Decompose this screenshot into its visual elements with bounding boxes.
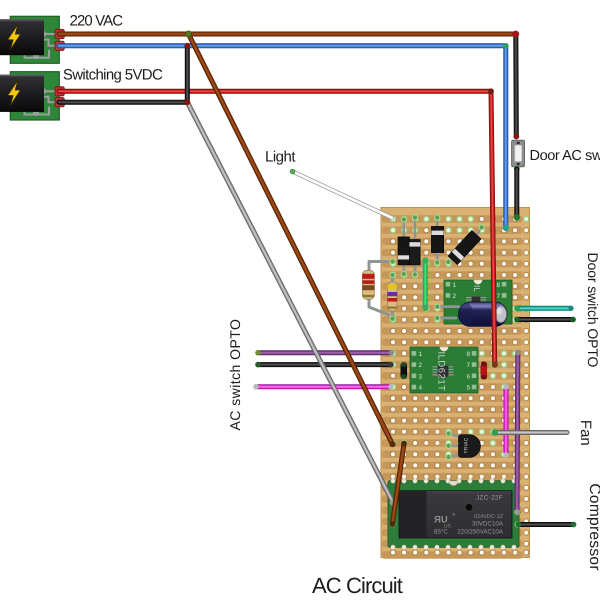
svg-text:6: 6 bbox=[466, 373, 470, 380]
label Door switch OPTO bbox=[585, 253, 600, 368]
opto-coupler U1 (door switch) bbox=[444, 280, 512, 324]
label Switching 5VDC bbox=[63, 67, 163, 84]
wire red 5V supply bbox=[59, 88, 498, 367]
relay module JZC-22F bbox=[388, 479, 521, 550]
wire brown jumper to relay bbox=[389, 441, 407, 527]
wire black to door AC switch bbox=[512, 31, 519, 140]
label AC switch OPTO bbox=[227, 319, 243, 431]
svg-text:ILD621T: ILD621T bbox=[436, 352, 447, 392]
svg-text:Switching 5VDC: Switching 5VDC bbox=[63, 67, 163, 84]
svg-text:8: 8 bbox=[496, 282, 500, 289]
wire magenta vertical (fan drive) bbox=[503, 384, 509, 458]
wire black compressor bbox=[516, 522, 577, 528]
svg-text:8: 8 bbox=[466, 351, 470, 358]
svg-text:Door AC switch: Door AC switch bbox=[530, 148, 600, 164]
wire brown AC live bbox=[59, 32, 516, 37]
svg-text:Door switch OPTO: Door switch OPTO bbox=[585, 253, 600, 368]
wire black AC-switch-OPTO in bbox=[255, 362, 394, 368]
svg-text:AC switch OPTO: AC switch OPTO bbox=[227, 319, 243, 431]
svg-text:Fan: Fan bbox=[577, 420, 594, 446]
diode D4 (diagonal) bbox=[445, 224, 484, 265]
TRIAC Q1 bbox=[446, 431, 481, 461]
wire magenta AC-switch-OPTO in bbox=[253, 384, 394, 390]
electrolytic capacitor C1 bbox=[434, 302, 507, 326]
wire brown diagonal AC live to board bbox=[189, 34, 396, 447]
svg-text:220/250VAC10A: 220/250VAC10A bbox=[457, 528, 504, 535]
wire gray to relay coil bbox=[184, 99, 396, 505]
svg-text:Light: Light bbox=[265, 149, 296, 166]
svg-text:4: 4 bbox=[419, 385, 423, 392]
label Fan bbox=[577, 420, 594, 446]
svg-text:85°C: 85°C bbox=[434, 528, 448, 535]
svg-text:2: 2 bbox=[419, 362, 423, 369]
wire purple AC-switch-OPTO in bbox=[255, 350, 394, 356]
label Light bbox=[265, 149, 296, 166]
diode D3 bbox=[431, 215, 443, 266]
svg-text:024VDC-1Z: 024VDC-1Z bbox=[474, 514, 504, 520]
svg-text:7: 7 bbox=[496, 293, 500, 300]
small red component R3 bbox=[481, 362, 487, 380]
label Compressor bbox=[586, 483, 600, 570]
svg-text:7: 7 bbox=[466, 362, 470, 369]
wire black door switch to board bbox=[514, 166, 520, 221]
svg-text:30VDC10A: 30VDC10A bbox=[472, 520, 504, 527]
diode D2 bbox=[409, 215, 420, 278]
svg-text:5: 5 bbox=[466, 385, 470, 392]
svg-text:1: 1 bbox=[419, 351, 423, 358]
svg-text:IL: IL bbox=[472, 285, 482, 292]
power supply module 5VDC bbox=[0, 72, 64, 120]
opto-coupler U2 ILD621T (AC switch) bbox=[410, 347, 478, 393]
svg-text:JZC-22F: JZC-22F bbox=[476, 495, 503, 502]
power supply module 220VAC bbox=[0, 16, 64, 63]
wire teal jumper on board bbox=[422, 257, 428, 311]
leader line for Light label bbox=[290, 169, 392, 218]
wire blue AC neutral bbox=[59, 43, 509, 231]
wire black door-switch-OPTO out bbox=[514, 317, 576, 323]
junction node AC live bbox=[185, 31, 191, 37]
svg-text:220 VAC: 220 VAC bbox=[70, 13, 124, 30]
wire gray fan output bbox=[491, 429, 567, 436]
perfboard bbox=[381, 208, 530, 559]
svg-text:1: 1 bbox=[453, 282, 457, 289]
svg-text:2: 2 bbox=[453, 293, 457, 300]
svg-text:TRIAC: TRIAC bbox=[464, 437, 470, 453]
label 220 VAC bbox=[70, 13, 124, 30]
svg-text:3: 3 bbox=[419, 373, 423, 380]
wire purple vertical (compressor drive) bbox=[514, 350, 521, 515]
wire black 5V ground bbox=[59, 43, 190, 102]
door AC switch component bbox=[512, 140, 525, 167]
resistor R2 (on board) bbox=[388, 272, 398, 322]
wire teal door-switch-OPTO out bbox=[514, 305, 574, 311]
title AC Circuit bbox=[312, 573, 403, 598]
resistor R1 (off-board) bbox=[362, 259, 396, 320]
svg-text:Compressor: Compressor bbox=[586, 483, 600, 570]
small black capacitor C2 bbox=[401, 363, 407, 379]
diode D1 bbox=[398, 217, 410, 278]
label Door AC switch bbox=[530, 148, 600, 164]
svg-text:AC Circuit: AC Circuit bbox=[312, 573, 403, 598]
